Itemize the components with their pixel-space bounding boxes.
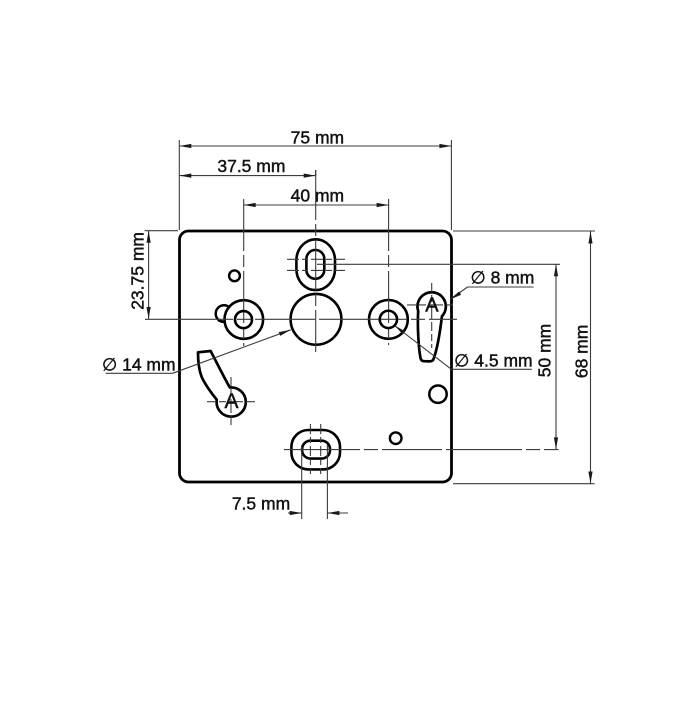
centerline: right A-slot crosshair — [407, 283, 453, 348]
svg-text:∅ 8 mm: ∅ 8 mm — [470, 267, 534, 287]
top slot inner obround — [306, 250, 324, 279]
dimension 68 mm (far right, vertical) — [453, 231, 595, 484]
centerline: left A-slot crosshair — [207, 377, 255, 426]
top slot outer obround — [296, 239, 335, 290]
right curved A-slot — [417, 292, 445, 361]
leader Ø 4.5 mm — [395, 326, 532, 370]
svg-text:40 mm: 40 mm — [291, 186, 344, 206]
svg-text:37.5 mm: 37.5 mm — [217, 156, 285, 176]
centerline: bottom slot left arc centre — [309, 424, 311, 474]
centerline: top slot upper arc centre — [287, 258, 345, 260]
bottom slot outer — [291, 430, 340, 469]
centre bore Ø14 — [291, 294, 342, 345]
svg-text:50 mm: 50 mm — [535, 324, 555, 377]
centerline: right hole vertical — [388, 199, 390, 345]
small hole upper-left — [229, 270, 240, 281]
dimension 75 mm — [179, 140, 451, 230]
small hole right Ø8 — [429, 386, 446, 403]
svg-text:∅ 14 mm: ∅ 14 mm — [102, 355, 176, 375]
svg-text:A: A — [224, 390, 238, 413]
centerline: bottom slot right arc centre — [320, 424, 322, 474]
centerline+extension: bottom slot horizontal to 50mm dim — [284, 449, 559, 451]
left hole inner circle (over centerlines like target) — [235, 311, 397, 328]
left hole bump chord — [218, 320, 230, 323]
centerline: main horizontal axis through holes — [145, 318, 457, 320]
dimension 37.5 mm — [179, 170, 315, 178]
svg-text:68 mm: 68 mm — [572, 325, 592, 378]
bottom slot inner obround — [302, 441, 330, 459]
left hole outer circle — [225, 300, 264, 339]
centerline: top slot lower arc centre — [287, 269, 345, 271]
svg-text:∅ 4.5 mm: ∅ 4.5 mm — [454, 350, 532, 370]
leader Ø 14 mm — [106, 330, 291, 374]
svg-text:7.5 mm: 7.5 mm — [232, 494, 290, 514]
dimension 23.75 mm (left, vertical) — [145, 231, 178, 319]
small hole lower-middle — [390, 432, 402, 444]
dimension 50 mm (right, vertical) — [554, 264, 558, 449]
left curved A-slot — [198, 351, 246, 417]
plate outline (75 x 68 mm) — [180, 231, 452, 482]
right hole outer circle — [369, 300, 408, 339]
dimension 7.5 mm (bottom) — [288, 445, 348, 519]
dimension 40 mm — [244, 203, 389, 207]
leader Ø 8 mm — [450, 287, 534, 300]
extension line: top slot centre to 50mm dim — [317, 263, 560, 265]
svg-text:23.75 mm: 23.75 mm — [128, 232, 148, 310]
left hole keyhole bump — [216, 305, 233, 322]
svg-text:75 mm: 75 mm — [291, 128, 344, 148]
svg-text:A: A — [425, 294, 439, 316]
centerline: main vertical axis (top slot + centre bore) — [315, 170, 317, 352]
centerline: left hole vertical — [243, 199, 245, 346]
